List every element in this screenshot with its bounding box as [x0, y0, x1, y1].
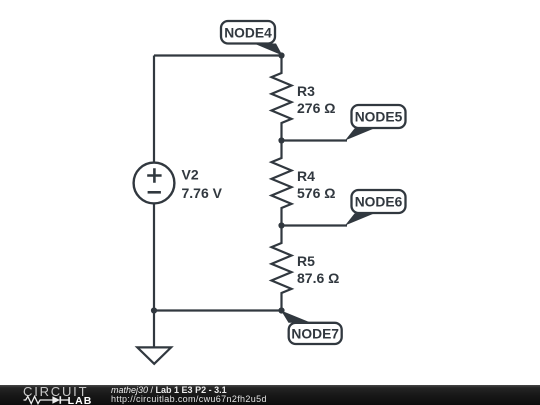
resistor R4 value label — [297, 168, 335, 201]
svg-text:R3: R3 — [297, 83, 315, 99]
wire ground stem — [153, 311, 155, 348]
node NODE7 junction dot — [278, 307, 284, 313]
wire top horizontal — [154, 54, 282, 56]
svg-text:576 Ω: 576 Ω — [297, 185, 335, 201]
node NODE6 junction dot — [278, 222, 284, 228]
credit text — [111, 385, 267, 405]
label NODE4 — [221, 21, 283, 56]
voltage source V2 — [134, 163, 175, 204]
svg-text:V2: V2 — [182, 167, 199, 183]
node NODE5 junction dot — [278, 137, 284, 143]
resistor R5 value label — [297, 253, 339, 286]
wire left vertical lower — [153, 204, 155, 311]
svg-text:NODE5: NODE5 — [355, 110, 403, 125]
resistor R4 — [272, 141, 292, 226]
resistor R3 value label — [297, 83, 335, 116]
svg-text:R4: R4 — [297, 168, 315, 184]
wire bottom horizontal — [154, 309, 282, 311]
svg-text:NODE7: NODE7 — [291, 326, 339, 341]
voltage source V2 value label — [182, 167, 223, 202]
label NODE7 — [281, 311, 342, 345]
svg-text:LAB: LAB — [68, 395, 93, 405]
ground — [137, 347, 171, 363]
resistor R3 — [272, 56, 292, 141]
wire stub to NODE6 — [282, 224, 348, 226]
CircuitLab logo — [0, 385, 100, 405]
svg-text:NODE4: NODE4 — [224, 25, 272, 40]
svg-text:NODE6: NODE6 — [355, 195, 403, 210]
node junction dot ground — [151, 307, 157, 313]
svg-text:87.6 Ω: 87.6 Ω — [297, 270, 339, 286]
svg-text:7.76 V: 7.76 V — [182, 185, 223, 201]
footer bar — [0, 385, 540, 405]
svg-text:276 Ω: 276 Ω — [297, 100, 335, 116]
wire left vertical upper — [153, 56, 155, 163]
label NODE5 — [345, 105, 406, 141]
svg-text:R5: R5 — [297, 253, 315, 269]
node NODE4 junction dot — [278, 52, 284, 58]
resistor R5 — [272, 226, 292, 311]
label NODE6 — [345, 190, 406, 226]
wire stub to NODE5 — [282, 139, 348, 141]
